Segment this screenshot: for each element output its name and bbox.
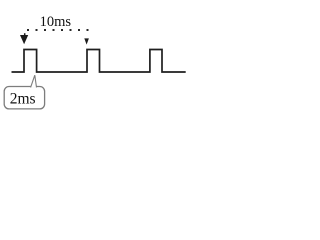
svg-text:2ms: 2ms: [10, 90, 36, 107]
svg-text:10ms: 10ms: [40, 14, 72, 30]
callout bubble tail (points at pulse width): [31, 75, 37, 87]
pulse waveform trace (three pulses, period 10ms): [12, 50, 186, 73]
left arrow shaft stub: [24, 33, 26, 36]
left down arrowhead (at first pulse rising edge): [20, 35, 28, 44]
right down arrowhead (at second pulse rising edge): [84, 38, 89, 44]
callout bubble rounded box: [4, 87, 44, 109]
10ms dimension dotted line: [27, 29, 90, 31]
